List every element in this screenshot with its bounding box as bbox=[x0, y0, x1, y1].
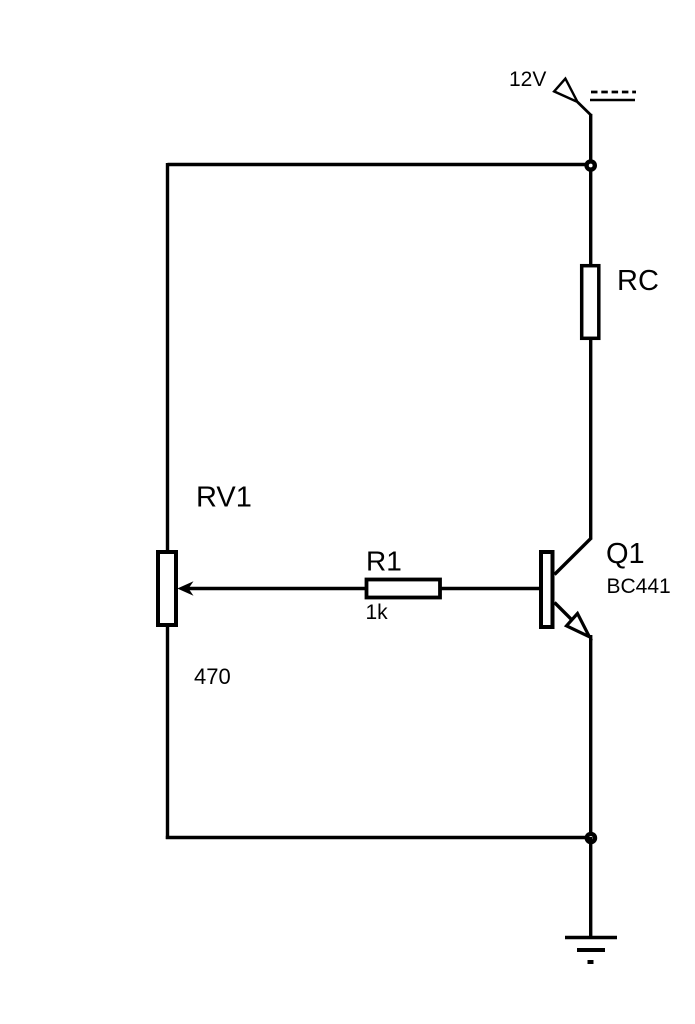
wire emitter to bottom node bbox=[589, 635, 592, 839]
wire 12V lead vertical to node bbox=[589, 114, 592, 166]
potentiometer RV1 body bbox=[158, 552, 176, 625]
wire node to RC bbox=[589, 164, 592, 266]
potentiometer RV1 wiper arrowhead bbox=[177, 581, 193, 596]
wire top horizontal bbox=[168, 163, 591, 166]
svg-text:470: 470 bbox=[194, 664, 231, 689]
resistor R1 body bbox=[367, 580, 441, 598]
transistor Q1 emitter arrowhead bbox=[567, 614, 590, 637]
wire bottom horizontal bbox=[166, 836, 591, 839]
wire left lower vertical bbox=[166, 625, 169, 839]
node B junction dot bottom bbox=[587, 834, 595, 842]
power 12V dashed bar bbox=[591, 91, 636, 94]
wire RC to collector bbox=[589, 338, 592, 540]
svg-text:RC: RC bbox=[617, 265, 659, 297]
wire left upper vertical bbox=[166, 163, 169, 552]
node A junction dot top bbox=[587, 161, 595, 169]
svg-text:RV1: RV1 bbox=[196, 482, 252, 514]
power 12V arrow symbol bbox=[554, 79, 577, 102]
transistor Q1 base bar bbox=[541, 552, 553, 627]
power 12V solid bar bbox=[590, 99, 635, 101]
resistor RC body bbox=[582, 266, 599, 339]
wire node to ground bbox=[589, 837, 592, 938]
wire wiper to R1 bbox=[185, 587, 367, 590]
svg-text:R1: R1 bbox=[366, 546, 402, 577]
wire 12V lead diagonal bbox=[578, 102, 591, 115]
transistor Q1 collector lead bbox=[555, 538, 592, 575]
svg-text:12V: 12V bbox=[509, 68, 546, 91]
transistor Q1 emitter lead bbox=[555, 603, 573, 621]
svg-text:1k: 1k bbox=[366, 601, 389, 624]
ground symbol bar 1 bbox=[565, 936, 617, 939]
wire R1 to base bbox=[440, 587, 541, 590]
svg-text:Q1: Q1 bbox=[606, 538, 645, 570]
ground symbol bar 2 bbox=[577, 948, 605, 952]
svg-text:BC441: BC441 bbox=[607, 575, 671, 598]
ground symbol bar 3 bbox=[588, 960, 594, 964]
